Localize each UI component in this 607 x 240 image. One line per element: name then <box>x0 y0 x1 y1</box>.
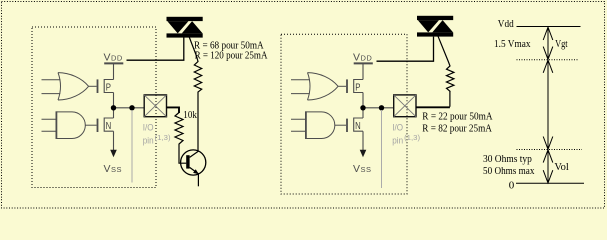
svg-text:I/O: I/O <box>392 122 403 133</box>
svg-text:10k: 10k <box>183 110 197 121</box>
stub wire to internal logic left <box>131 110 133 183</box>
svg-text:(1,3): (1,3) <box>404 135 420 142</box>
dotted level line Vgt <box>517 59 579 61</box>
svg-text:pin: pin <box>392 135 403 146</box>
svg-text:50 Ohms max: 50 Ohms max <box>483 166 534 177</box>
svg-text:Vgt: Vgt <box>555 39 568 50</box>
zero level line <box>516 182 584 184</box>
OR gate left <box>42 73 89 100</box>
svg-text:P: P <box>106 82 111 93</box>
transistor P-MOS right <box>338 63 363 108</box>
svg-text:VDD: VDD <box>353 52 372 64</box>
VDD rail left <box>104 62 123 64</box>
svg-text:1.5 Vmax: 1.5 Vmax <box>494 39 531 50</box>
svg-text:30 Ohms typ: 30 Ohms typ <box>483 154 532 165</box>
resistor R gate right (zigzag from triac gate) <box>438 36 454 107</box>
dotted level line Vol <box>517 149 583 151</box>
svg-text:N: N <box>106 121 112 132</box>
I/O pad cell right <box>394 95 416 117</box>
triac T1 left <box>167 17 203 38</box>
svg-text:R = 120 pour 25mA: R = 120 pour 25mA <box>195 51 268 62</box>
svg-text:0: 0 <box>509 180 515 192</box>
dimension arrow Vol <box>543 150 553 183</box>
resistor 10k <box>175 113 186 164</box>
svg-text:P: P <box>355 82 360 93</box>
svg-text:VSS: VSS <box>353 163 372 175</box>
I/O pin label left <box>143 122 171 146</box>
dashed IC boundary box right <box>281 34 407 194</box>
label R values right <box>422 111 493 134</box>
OR gate right <box>291 73 338 100</box>
wire drains to I/O pad right <box>363 107 394 109</box>
junction node dot2 right <box>379 105 384 110</box>
svg-text:VDD: VDD <box>104 52 123 64</box>
svg-text:Vdd: Vdd <box>498 19 514 30</box>
stub wire to internal logic right <box>381 110 383 188</box>
wire drains to I/O pad left <box>114 107 145 109</box>
wire VDD to triac right <box>377 37 434 62</box>
wire resistor to I/O pin right <box>416 106 450 108</box>
svg-text:VSS: VSS <box>104 163 123 175</box>
wire VDD to triac left <box>127 37 184 60</box>
VSS arrow left <box>110 150 117 157</box>
AND gate right <box>291 111 335 139</box>
svg-text:R = 82 pour 25mA: R = 82 pour 25mA <box>422 123 492 134</box>
dimension arrow middle span <box>543 60 553 149</box>
transistor N-MOS right <box>335 108 363 150</box>
VDD rail right <box>354 62 373 64</box>
svg-text:N: N <box>355 121 361 132</box>
dimension arrow Vgt <box>543 27 553 60</box>
dashed IC boundary box left <box>32 27 156 188</box>
junction node dot1 right <box>360 105 365 110</box>
junction node dot2 left <box>129 105 134 110</box>
resistor R gate left (zigzag from triac gate) <box>188 34 202 150</box>
svg-text:I/O: I/O <box>143 122 154 133</box>
Vdd level line <box>517 26 581 28</box>
svg-text:pin: pin <box>143 135 154 146</box>
svg-text:R = 22 pour 50mA: R = 22 pour 50mA <box>422 111 493 122</box>
AND gate left <box>42 111 86 139</box>
label R values left <box>194 40 268 61</box>
triac T2 right <box>417 16 453 37</box>
transistor P-MOS left <box>89 63 114 108</box>
wire I/O pin to 10k resistor <box>167 107 180 113</box>
transistor Q1 NPN <box>181 150 206 186</box>
I/O pad cell left <box>144 95 166 117</box>
svg-text:Vol: Vol <box>554 162 569 173</box>
I/O pin label right <box>392 122 420 146</box>
svg-text:(1,3): (1,3) <box>155 135 171 142</box>
junction node dot1 left <box>111 105 116 110</box>
VSS arrow right <box>360 150 367 157</box>
transistor N-MOS left <box>85 108 113 150</box>
